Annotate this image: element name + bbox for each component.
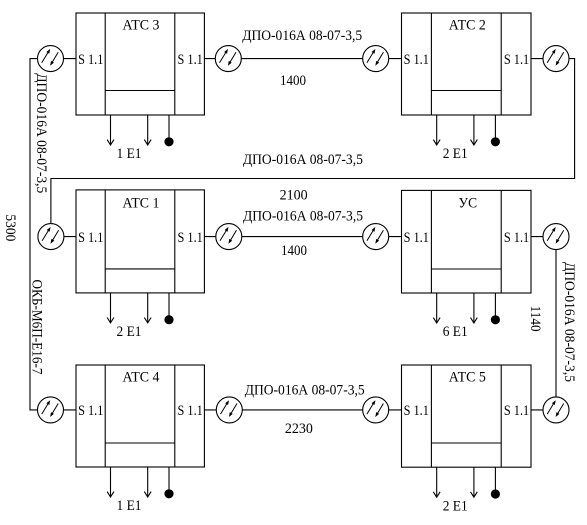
svg-text:АТС 4: АТС 4 xyxy=(123,370,161,386)
svg-text:АТС 2: АТС 2 xyxy=(449,18,486,34)
optical line terminal left of АТС 2 xyxy=(363,46,389,72)
node АТС 5: exchange box xyxy=(402,365,532,467)
terminator: signalling drop with dot of АТС 3 xyxy=(164,115,173,146)
svg-text:2100: 2100 xyxy=(280,188,308,204)
wire: E1 stream arrow 2 of АТС 1 xyxy=(144,293,151,323)
wire: E1 stream arrow 2 of АТС 5 xyxy=(471,467,478,497)
svg-text:S 1.1: S 1.1 xyxy=(404,403,429,419)
svg-text:ДПО-016А 08-07-3,5: ДПО-016А 08-07-3,5 xyxy=(243,208,363,224)
optical line terminal right of АТС 2 xyxy=(543,46,569,72)
wire: E1 stream arrow 1 of АТС 2 xyxy=(433,115,440,145)
svg-text:АТС 1: АТС 1 xyxy=(123,195,160,211)
wire: E1 stream arrow 1 of УС xyxy=(433,293,440,323)
svg-text:S 1.1: S 1.1 xyxy=(178,403,203,419)
wire: link АТС3–АТС4 (5300, left side) xyxy=(30,59,76,410)
wire: link АТС3–АТС2 (1400) xyxy=(204,58,401,60)
optical line terminal right of УС xyxy=(543,224,569,250)
svg-text:2 Е1: 2 Е1 xyxy=(443,498,468,514)
svg-text:1400: 1400 xyxy=(280,73,306,89)
node АТС 3: exchange box xyxy=(76,13,204,115)
optical line terminal right of АТС 4 xyxy=(216,397,242,423)
wire: E1 stream arrow 1 of АТС 1 xyxy=(107,293,114,323)
svg-text:S 1.1: S 1.1 xyxy=(78,230,103,246)
svg-text:S 1.1: S 1.1 xyxy=(504,52,529,68)
svg-text:УС: УС xyxy=(459,196,478,212)
svg-text:S 1.1: S 1.1 xyxy=(78,52,103,68)
wire: E1 stream arrow 2 of УС xyxy=(471,293,478,323)
svg-text:ДПО-016А 08-07-3,5: ДПО-016А 08-07-3,5 xyxy=(243,152,363,168)
terminator: signalling drop with dot of АТС 1 xyxy=(164,293,173,324)
svg-text:АТС 3: АТС 3 xyxy=(123,18,160,34)
svg-text:S 1.1: S 1.1 xyxy=(504,230,529,246)
optical line terminal left of УС xyxy=(363,224,389,250)
svg-text:2 Е1: 2 Е1 xyxy=(117,324,142,340)
node АТС 2: exchange box xyxy=(402,13,532,115)
svg-text:1 Е1: 1 Е1 xyxy=(117,146,142,162)
optical line terminal left of АТС 3 xyxy=(38,46,64,72)
svg-text:S 1.1: S 1.1 xyxy=(178,230,203,246)
svg-text:S 1.1: S 1.1 xyxy=(504,403,529,419)
svg-text:АТС 5: АТС 5 xyxy=(449,370,486,386)
wire: link АТС4–АТС5 (2230) xyxy=(204,409,401,411)
wire: E1 stream arrow 1 of АТС 4 xyxy=(107,467,114,497)
wire: link АТС2–АТС1 (2100, around right and top) xyxy=(51,59,575,237)
svg-text:1 Е1: 1 Е1 xyxy=(117,498,142,514)
terminator: signalling drop with dot of АТС 2 xyxy=(491,115,500,146)
terminator: signalling drop with dot of АТС 5 xyxy=(491,467,500,498)
optical line terminal right of АТС 3 xyxy=(215,46,241,72)
svg-text:2230: 2230 xyxy=(285,421,313,437)
svg-text:S 1.1: S 1.1 xyxy=(404,52,429,68)
svg-text:S 1.1: S 1.1 xyxy=(78,403,103,419)
terminator: signalling drop with dot of АТС 4 xyxy=(164,467,173,498)
wire: E1 stream arrow 2 of АТС 4 xyxy=(144,467,151,497)
svg-text:1400: 1400 xyxy=(281,243,307,259)
svg-text:6 Е1: 6 Е1 xyxy=(443,324,468,340)
svg-text:5300: 5300 xyxy=(2,214,18,241)
node АТС 1: exchange box xyxy=(76,190,204,293)
node АТС 4: exchange box xyxy=(76,365,204,467)
wire: E1 stream arrow 1 of АТС 5 xyxy=(433,467,440,497)
wire: link АТС1–УС (1400) xyxy=(204,236,401,238)
svg-text:S 1.1: S 1.1 xyxy=(178,52,203,68)
optical line terminal left of АТС 4 xyxy=(38,397,64,423)
svg-text:ОКБ-М6П-Е16-7: ОКБ-М6П-Е16-7 xyxy=(28,280,44,375)
svg-text:ДПО-016А 08-07-3,5: ДПО-016А 08-07-3,5 xyxy=(242,28,362,44)
wire: E1 stream arrow 2 of АТС 3 xyxy=(144,115,151,145)
svg-text:ДПО-016А 08-07-3,5: ДПО-016А 08-07-3,5 xyxy=(33,73,49,193)
wire: link УС–АТС5 (1140, right side) xyxy=(531,237,556,410)
optical line terminal right of АТС 1 xyxy=(216,224,242,250)
svg-text:2 Е1: 2 Е1 xyxy=(443,146,468,162)
svg-text:ДПО-016А 08-07-3,5: ДПО-016А 08-07-3,5 xyxy=(245,383,365,399)
svg-text:1140: 1140 xyxy=(527,306,543,332)
node УС: exchange box xyxy=(402,190,532,293)
optical line terminal left of АТС 5 xyxy=(363,397,389,423)
svg-text:S 1.1: S 1.1 xyxy=(404,230,429,246)
optical line terminal left of АТС 1 xyxy=(38,224,64,250)
wire: E1 stream arrow 2 of АТС 2 xyxy=(471,115,478,145)
terminator: signalling drop with dot of УС xyxy=(491,293,500,324)
wire: E1 stream arrow 1 of АТС 3 xyxy=(107,115,114,145)
svg-text:ДПО-016А 08-07-3,5: ДПО-016А 08-07-3,5 xyxy=(561,262,577,382)
optical line terminal right of АТС 5 xyxy=(543,397,569,423)
